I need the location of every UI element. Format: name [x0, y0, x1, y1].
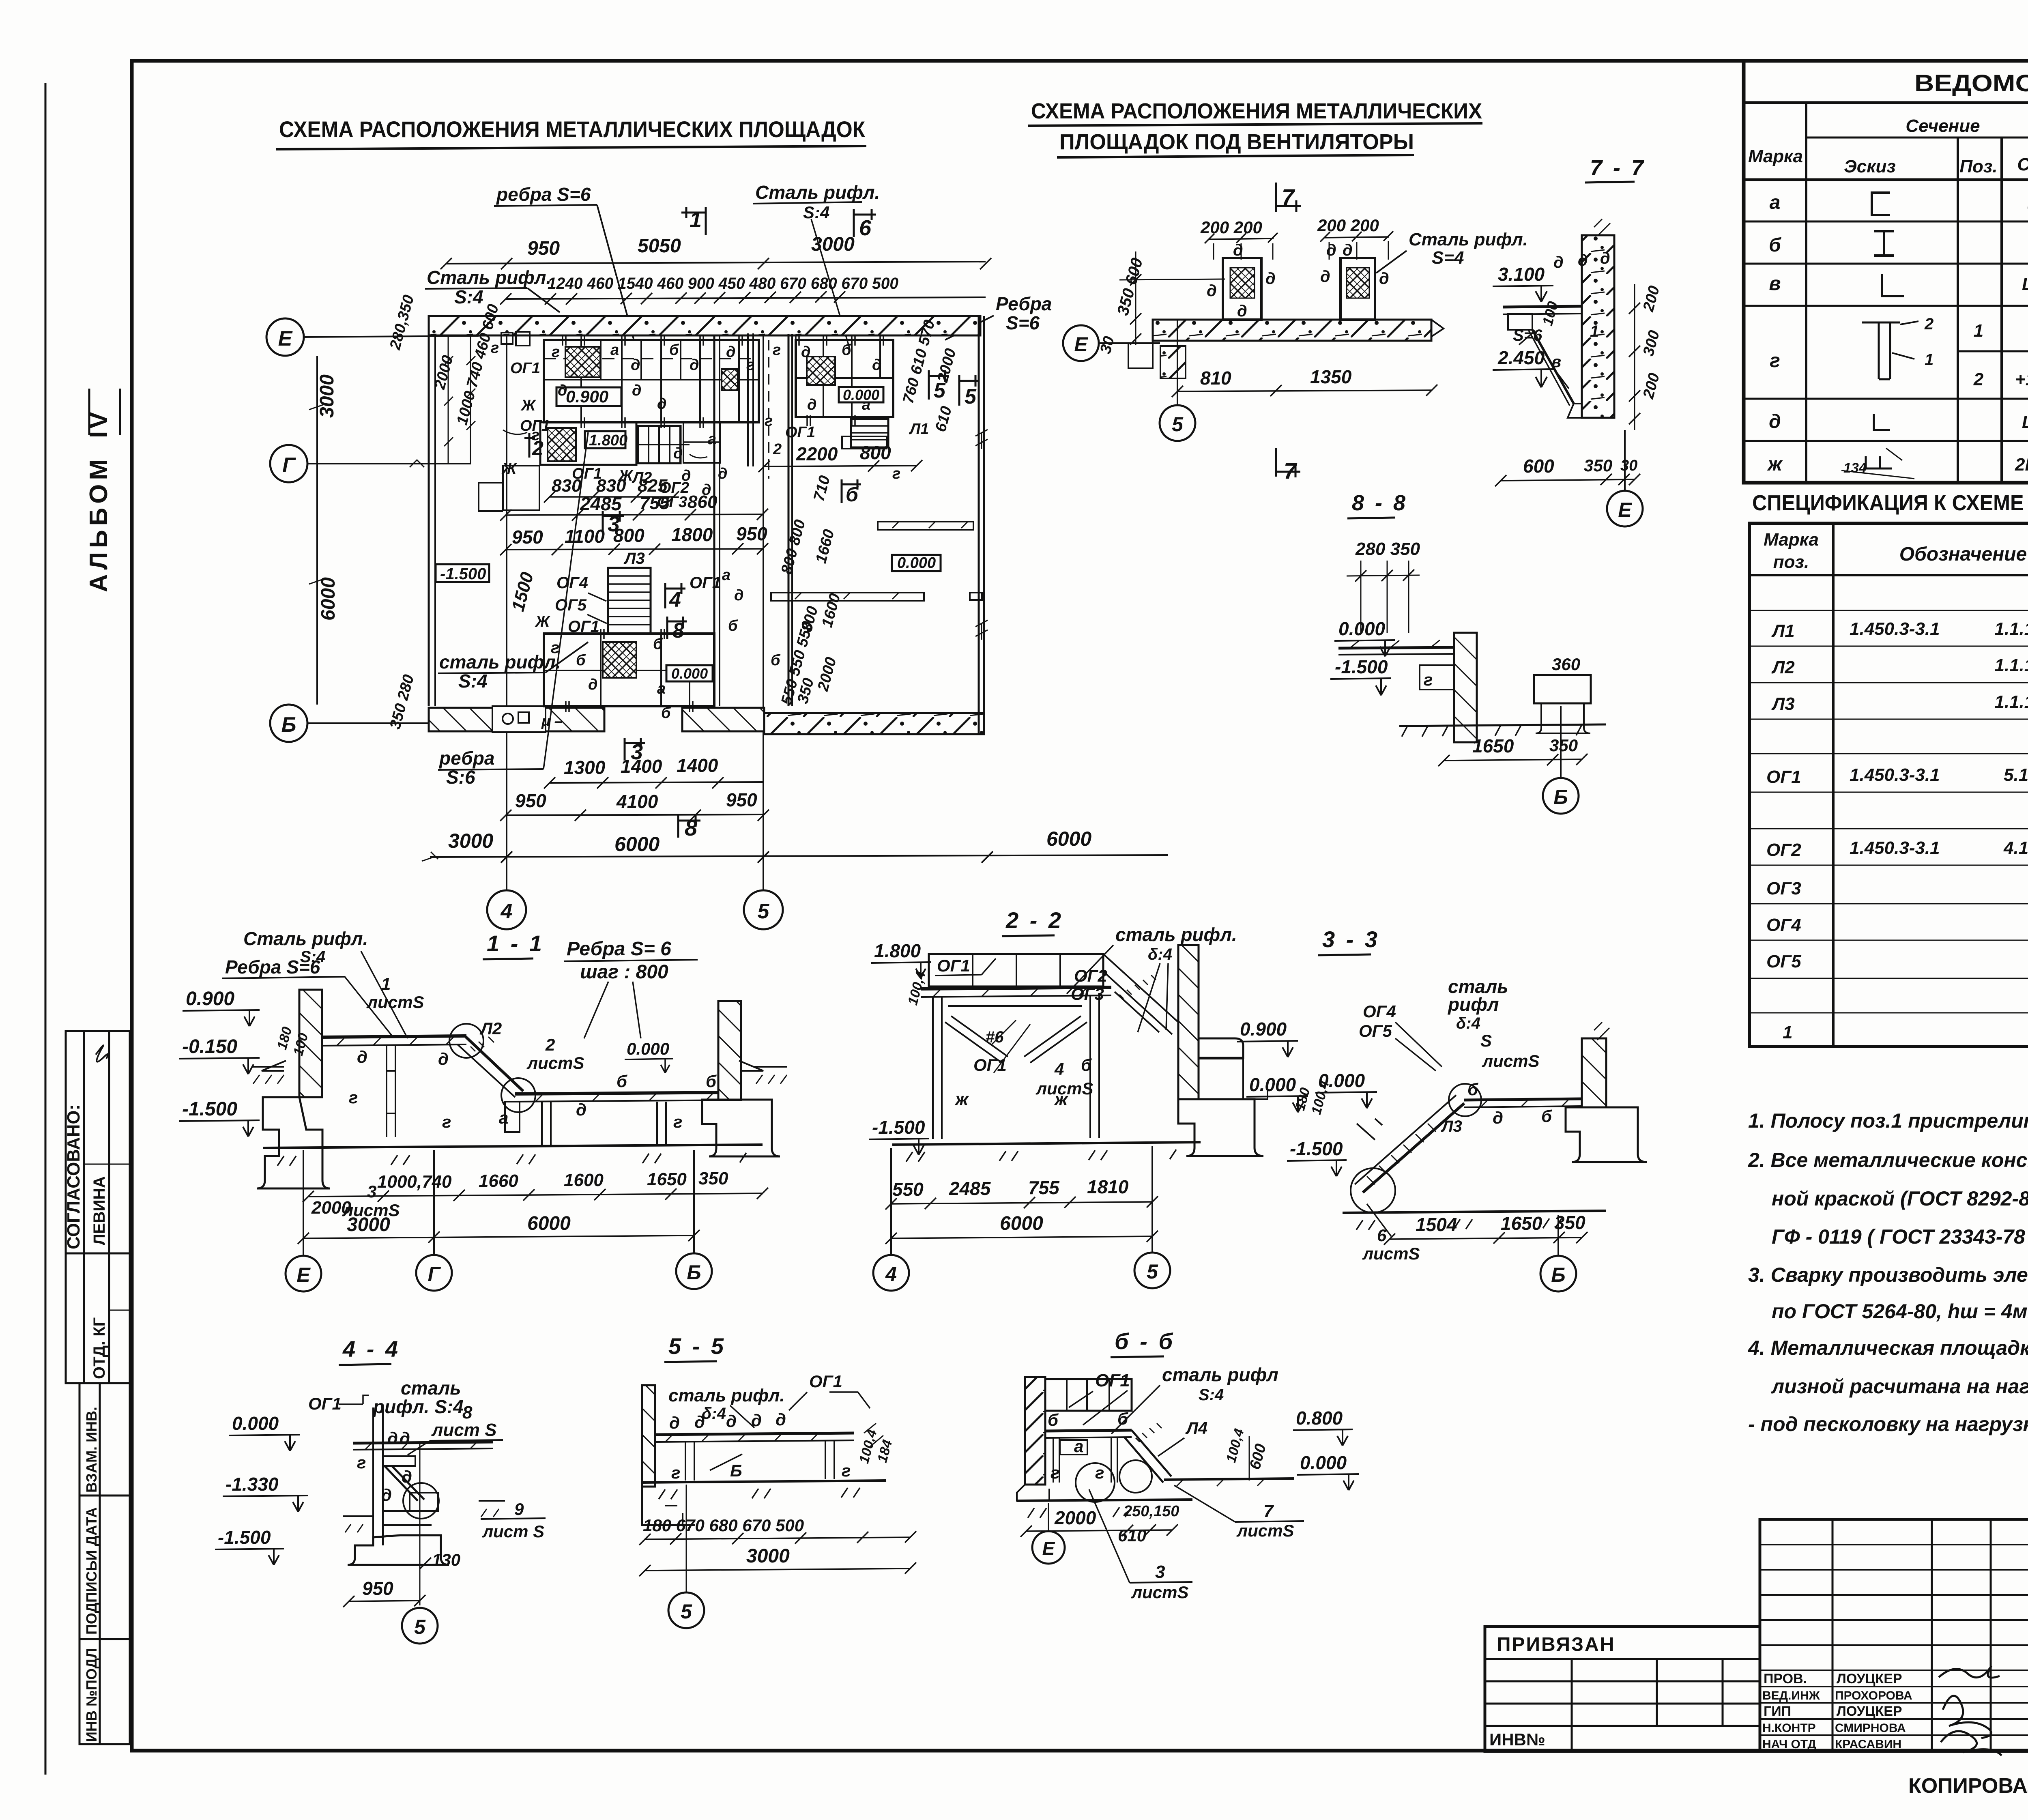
svg-text:ОГ5: ОГ5 [1359, 1021, 1392, 1040]
svg-text:ИНВ №ПОДЛ: ИНВ №ПОДЛ [83, 1648, 100, 1742]
top-left small blocks [501, 333, 513, 344]
svg-text:д: д [632, 382, 642, 399]
wall [1582, 235, 1614, 418]
rotated dims right of stair [778, 318, 959, 707]
svg-text:ГИП: ГИП [1764, 1704, 1791, 1719]
svg-text:0.000: 0.000 [1249, 1074, 1296, 1095]
svg-text:а: а [722, 567, 730, 584]
svg-text:СОГЛАСОВАНО:: СОГЛАСОВАНО: [64, 1104, 84, 1249]
svg-text:Л3: Л3 [1441, 1117, 1462, 1135]
svg-text:3000: 3000 [448, 829, 493, 852]
svg-text:950: 950 [362, 1578, 393, 1599]
svg-text:1660: 1660 [479, 1171, 518, 1191]
svg-text:7: 7 [1263, 1501, 1274, 1521]
svg-text:L63×5: L63×5 [2022, 412, 2028, 432]
signatures squiggles [1939, 1666, 2002, 1756]
svg-text:1: 1 [1974, 321, 1983, 341]
svg-text:2485: 2485 [580, 493, 622, 514]
svg-text:3.100: 3.100 [1498, 264, 1545, 285]
svg-text:ной краской (ГОСТ 8292-85) з: ной краской (ГОСТ 8292-85) за 2 раза по … [1772, 1187, 2028, 1210]
svg-text:Состав: Состав [2017, 155, 2028, 174]
svg-text:4: 4 [669, 588, 681, 612]
platform [655, 1433, 854, 1435]
svg-text:800: 800 [860, 442, 891, 463]
svg-text:КОПИРОВАЛ: Коршунова: КОПИРОВАЛ: Коршунова [1908, 1774, 2028, 1798]
svg-text:8 - 8: 8 - 8 [1352, 491, 1408, 515]
svg-text:0.000: 0.000 [1300, 1452, 1347, 1473]
svg-text:610: 610 [932, 404, 955, 434]
svg-text:а: а [610, 342, 619, 359]
svg-text:1300: 1300 [564, 757, 606, 778]
svg-text:ЛОУЦКЕР: ЛОУЦКЕР [1837, 1704, 1902, 1719]
svg-text:д: д [694, 1412, 705, 1431]
svg-text:1000,740: 1000,740 [377, 1172, 452, 1192]
svg-text:ПЛОЩАДОК ПОД ВЕНТИЛЯТОРЫ: ПЛОЩАДОК ПОД ВЕНТИЛЯТОРЫ [1059, 130, 1414, 154]
svg-text:АЛЬБОМ: АЛЬБОМ [85, 455, 113, 592]
top dim rows [446, 262, 986, 264]
svg-text:д: д [807, 396, 817, 413]
svg-text:д: д [718, 465, 728, 482]
wall column [1454, 633, 1477, 742]
svg-text:г: г [1770, 350, 1780, 372]
svg-text:810: 810 [1200, 367, 1231, 389]
svg-text:б: б [617, 1072, 627, 1091]
svg-text:860: 860 [687, 492, 718, 512]
svg-text:0.900: 0.900 [566, 387, 608, 406]
svg-text:сталь рифл.: сталь рифл. [1115, 924, 1237, 945]
right pedestal [1341, 258, 1375, 320]
svg-text:L 75×5: L 75×5 [2022, 274, 2028, 294]
svg-text:г: г [1424, 670, 1433, 689]
svg-text:Л3: Л3 [623, 550, 645, 567]
base + soil [892, 1142, 1201, 1145]
lower stamp boxes [79, 1383, 130, 1744]
svg-text:СМИРНОВА: СМИРНОВА [1835, 1721, 1906, 1735]
svg-text:0.800: 0.800 [1296, 1407, 1343, 1429]
svg-text:Сечение: Сечение [1906, 116, 1980, 136]
svg-text:а: а [708, 431, 716, 448]
svg-text:200 200: 200 200 [1317, 216, 1379, 235]
svg-text:Ребра: Ребра [996, 293, 1052, 314]
svg-text:д: д [681, 467, 691, 484]
svg-text:3000: 3000 [316, 374, 338, 418]
svg-text:ПОДПИСЬИ ДАТА: ПОДПИСЬИ ДАТА [83, 1507, 100, 1635]
svg-text:ИНВ№: ИНВ№ [1489, 1730, 1545, 1749]
svg-text:800 800: 800 800 [778, 518, 809, 576]
svg-text:S:4: S:4 [454, 286, 483, 307]
svg-text:ОГ2: ОГ2 [1766, 840, 1801, 860]
svg-text:830: 830 [596, 476, 626, 496]
svg-text:НАЧ ОТД: НАЧ ОТД [1762, 1738, 1816, 1751]
svg-text:4 - 4: 4 - 4 [342, 1336, 400, 1362]
svg-text:д: д [1237, 302, 1247, 320]
svg-text:Н.КОНТР: Н.КОНТР [1762, 1721, 1816, 1735]
svg-text:б: б [1117, 1409, 1128, 1428]
dashed inner borders [543, 340, 545, 422]
svg-text:г: г [673, 1112, 682, 1131]
svg-text:ОГ1: ОГ1 [937, 956, 970, 975]
svg-text:300: 300 [1640, 329, 1663, 358]
upper stair side rects [683, 422, 720, 463]
svg-text:130: 130 [432, 1550, 460, 1569]
svg-text:лист S: лист S [482, 1522, 544, 1541]
mid-left subplatform [540, 422, 636, 465]
cells [1766, 584, 2028, 1048]
svg-text:5050: 5050 [638, 235, 681, 257]
svg-text:950: 950 [512, 526, 543, 548]
svg-text:610: 610 [1118, 1526, 1146, 1545]
svg-text:ребра S=6: ребра S=6 [496, 184, 591, 205]
svg-text:2 - 2: 2 - 2 [1005, 907, 1063, 933]
right platform [1164, 1478, 1294, 1480]
svg-text:Ж: Ж [501, 460, 517, 477]
upper stair [638, 426, 681, 463]
svg-text:б: б [728, 617, 738, 634]
svg-text:5: 5 [414, 1616, 426, 1638]
svg-text:ОГ4: ОГ4 [1363, 1002, 1396, 1021]
platform [1338, 647, 1456, 648]
svg-text:+10×200: +10×200 [2015, 370, 2028, 389]
top concrete band [429, 316, 980, 335]
svg-text:-0.150: -0.150 [182, 1036, 237, 1057]
svg-text:в: в [1769, 273, 1781, 294]
svg-text:листS: листS [366, 993, 424, 1012]
svg-text:1400: 1400 [677, 755, 718, 776]
svg-text:Е: Е [296, 1263, 311, 1286]
svg-text:Л2: Л2 [1771, 658, 1795, 677]
corridor walls [713, 335, 715, 706]
small letters in cells [510, 342, 754, 444]
svg-text:ОГ1: ОГ1 [1766, 767, 1801, 787]
base + soil [1343, 1211, 1606, 1213]
svg-text:СХЕМА РАСПОЛОЖЕНИЯ МЕТАЛЛИЧЕСК: СХЕМА РАСПОЛОЖЕНИЯ МЕТАЛЛИЧЕСКИХ ПЛОЩАДО… [279, 116, 866, 142]
svg-text:д: д [357, 1047, 367, 1066]
svg-text:1240 460 1540 460 900 450 480: 1240 460 1540 460 900 450 480 670 680 67… [548, 275, 898, 292]
svg-text:δ:4: δ:4 [1148, 945, 1172, 963]
svg-text:б: б [706, 1072, 717, 1091]
svg-text:1.800: 1.800 [874, 940, 921, 961]
svg-text:ж: ж [1766, 453, 1783, 475]
row lines [1744, 221, 2028, 223]
svg-text:д: д [1326, 241, 1336, 259]
svg-text:0.000: 0.000 [1338, 618, 1386, 639]
central stair [608, 568, 651, 634]
svg-text:5: 5 [934, 379, 946, 402]
svg-text:1800: 1800 [671, 524, 713, 545]
svg-text:3. Сварку производить электр: 3. Сварку производить электродами типа Э… [1748, 1263, 2028, 1286]
svg-text:б: б [1048, 1410, 1059, 1429]
svg-text:в: в [1551, 353, 1561, 371]
svg-text:сталь: сталь [401, 1377, 461, 1399]
svg-text:б - б: б - б [1115, 1328, 1175, 1354]
labels below [572, 465, 711, 511]
svg-text:Поз.: Поз. [1959, 157, 1997, 176]
svg-text:0.000: 0.000 [627, 1039, 669, 1058]
svg-text:д: д [1320, 268, 1330, 286]
svg-text:ОГ1: ОГ1 [1095, 1371, 1130, 1390]
svg-text:ОГ1: ОГ1 [308, 1394, 342, 1413]
svg-text:2.450: 2.450 [1497, 347, 1545, 368]
svg-text:б: б [846, 483, 859, 506]
svg-text:а: а [1770, 192, 1781, 213]
svg-text:ОГ1: ОГ1 [690, 574, 721, 592]
platform beam [921, 987, 1111, 989]
svg-text:Г: Г [428, 1263, 441, 1285]
svg-text:д: д [872, 357, 882, 374]
svg-text:2: 2 [545, 1035, 555, 1054]
svg-text:5 - 5: 5 - 5 [668, 1333, 726, 1359]
svg-text:а: а [862, 396, 870, 413]
svg-text:д: д [801, 344, 811, 361]
svg-text:600: 600 [1246, 1442, 1270, 1471]
svg-text:сталь рифл.: сталь рифл. [668, 1386, 785, 1405]
svg-text:1: 1 [1925, 351, 1933, 369]
left wall [428, 316, 430, 706]
svg-text:5: 5 [1172, 413, 1184, 436]
svg-text:- под песколовку на нагруз: - под песколовку на нагрузку 150кн. [1748, 1413, 2028, 1435]
svg-text:0.900: 0.900 [186, 988, 234, 1010]
svg-text:ЛЕВИНА: ЛЕВИНА [90, 1176, 108, 1245]
svg-text:ж: ж [1054, 1089, 1069, 1109]
axis circles E G B [266, 318, 304, 356]
svg-text:ОГ1: ОГ1 [510, 360, 540, 377]
svg-text:350: 350 [698, 1169, 728, 1188]
svg-text:ВЗАМ. ИНВ.: ВЗАМ. ИНВ. [83, 1407, 100, 1493]
svg-text:1660: 1660 [812, 528, 838, 565]
svg-text:4. Металлическая площадка в: 4. Металлическая площадка в помещении эл… [1748, 1337, 2028, 1359]
svg-text:г: г [491, 340, 499, 357]
svg-text:350: 350 [1549, 736, 1578, 755]
svg-text:д: д [734, 587, 744, 604]
svg-text:6000: 6000 [318, 577, 339, 621]
dims [645, 1537, 911, 1539]
svg-text:2: 2 [532, 437, 544, 460]
svg-text:Марка: Марка [1764, 530, 1819, 550]
svg-text:S=6: S=6 [1006, 312, 1040, 333]
svg-text:д: д [1379, 270, 1389, 288]
svg-text:6000: 6000 [614, 833, 660, 855]
svg-text:-1.500: -1.500 [1335, 656, 1388, 677]
svg-text:по ГОСТ 5264-80, hш = 4мм: по ГОСТ 5264-80, hш = 4мм [1772, 1300, 2028, 1323]
svg-text:S=4: S=4 [1432, 248, 1464, 268]
svg-text:ОГ1: ОГ1 [973, 1055, 1007, 1074]
left wall + foundation [299, 990, 322, 1097]
svg-text:200 200: 200 200 [1200, 218, 1262, 237]
stair L4 [1124, 1430, 1171, 1483]
svg-text:б: б [669, 342, 679, 359]
svg-text:2L63×5: 2L63×5 [2015, 455, 2028, 475]
svg-text:250,150: 250,150 [1123, 1503, 1179, 1520]
svg-text:б: б [1769, 234, 1781, 256]
cut 7 bottom [1276, 448, 1300, 477]
svg-text:3 - 3: 3 - 3 [1322, 926, 1380, 952]
privyazan box [1485, 1627, 1760, 1751]
svg-text:лизной расчитана на нагрузк: лизной расчитана на нагрузку 32.0кн; [1771, 1375, 2028, 1398]
svg-text:д: д [1207, 282, 1217, 300]
svg-text:а: а [499, 1108, 508, 1127]
svg-text:д: д [673, 445, 683, 462]
svg-text:Л1: Л1 [909, 421, 929, 438]
svg-text:ОГ5: ОГ5 [555, 596, 587, 614]
right platform [1464, 1099, 1582, 1100]
svg-text:1.800: 1.800 [589, 432, 627, 449]
lower platform [544, 634, 714, 706]
svg-text:800: 800 [798, 604, 821, 634]
base line + soil [263, 1145, 763, 1148]
svg-text:д: д [726, 1412, 737, 1431]
svg-text:0.000: 0.000 [897, 554, 936, 572]
svg-text:360: 360 [1552, 655, 1580, 674]
svg-text:0.000: 0.000 [843, 387, 879, 403]
svg-text:Б: Б [730, 1461, 742, 1480]
svg-text:д: д [751, 1411, 762, 1430]
svg-text:S: S [1480, 1031, 1492, 1050]
bottom dims [1390, 1238, 1582, 1239]
svg-text:δ:4: δ:4 [702, 1405, 726, 1422]
svg-text:#6: #6 [986, 1028, 1004, 1046]
svg-text:-1.500: -1.500 [440, 565, 486, 583]
svg-text:д: д [690, 357, 699, 374]
svg-text:г: г [357, 1453, 366, 1472]
second bottom dim row 950 4100 950 [506, 814, 763, 815]
svg-text:6: 6 [859, 216, 872, 240]
svg-text:б: б [661, 705, 671, 722]
svg-text:1500: 1500 [508, 570, 537, 614]
svg-text:4100: 4100 [616, 791, 658, 812]
svg-text:1100: 1100 [565, 526, 605, 547]
beam [1045, 1430, 1132, 1431]
upper stamp boxes [66, 1031, 130, 1383]
svg-text:2485: 2485 [949, 1178, 991, 1199]
bottom dims [308, 1193, 763, 1197]
svg-text:рифл. S:4: рифл. S:4 [372, 1396, 464, 1417]
svg-text:950: 950 [515, 790, 546, 811]
svg-text:Б: Б [687, 1261, 701, 1284]
svg-text:6000: 6000 [527, 1213, 571, 1234]
dim rows mid [550, 496, 673, 498]
bottom dims [891, 1202, 1152, 1204]
svg-text:3: 3 [1155, 1562, 1165, 1582]
sostav [1973, 189, 2028, 475]
svg-text:д: д [669, 1413, 680, 1432]
svg-text:2000: 2000 [311, 1198, 351, 1218]
svg-text:8: 8 [462, 1403, 473, 1422]
svg-text:-1.500: -1.500 [872, 1117, 925, 1138]
structure [373, 1407, 383, 1545]
stair L1 [851, 419, 888, 447]
svg-text:800: 800 [613, 525, 644, 546]
E circle + axis [1063, 325, 1099, 361]
svg-text:2: 2 [1973, 370, 1984, 389]
dims 1650 350 [1444, 759, 1582, 761]
svg-text:д: д [1553, 254, 1564, 271]
svg-text:листS: листS [1482, 1051, 1540, 1070]
svg-text:д: д [588, 676, 598, 693]
svg-text:Б: Б [1551, 1263, 1565, 1286]
svg-text:г: г [671, 1463, 680, 1482]
svg-text:0.000: 0.000 [671, 665, 708, 682]
svg-text:184: 184 [874, 1438, 895, 1464]
svg-text:2: 2 [773, 441, 782, 458]
svg-text:б: б [771, 652, 781, 669]
upper-right platform grid [796, 340, 893, 417]
marks [1766, 192, 1783, 475]
dims [1026, 1530, 1172, 1531]
svg-text:280,350: 280,350 [387, 293, 417, 352]
svg-text:г: г [1051, 1463, 1059, 1482]
svg-text:4: 4 [1054, 1059, 1064, 1079]
svg-text:1.450.3-3.1: 1.450.3-3.1 [1850, 838, 1940, 858]
svg-text:8: 8 [672, 619, 684, 642]
svg-text:2000: 2000 [1054, 1507, 1096, 1528]
svg-text:9: 9 [514, 1500, 524, 1519]
svg-text:Сталь рифл.: Сталь рифл. [1409, 230, 1528, 249]
bottom-left band [429, 708, 604, 731]
svg-text:950: 950 [527, 238, 560, 259]
svg-text:СХЕМА РАСПОЛОЖЕНИЯ МЕТАЛЛИЧЕСК: СХЕМА РАСПОЛОЖЕНИЯ МЕТАЛЛИЧЕСКИХ [1031, 99, 1482, 123]
svg-text:1650: 1650 [1501, 1213, 1542, 1234]
left pilaster rects [503, 466, 539, 510]
svg-text:Сталь рифл.: Сталь рифл. [755, 182, 880, 203]
svg-text:3000: 3000 [347, 1214, 390, 1236]
svg-text:Е: Е [278, 327, 293, 350]
svg-text:S=6: S=6 [1513, 327, 1542, 344]
cut 7 top [1276, 183, 1301, 212]
svg-text:1650: 1650 [1472, 735, 1514, 756]
svg-text:ж: ж [954, 1089, 969, 1109]
svg-text:200: 200 [1640, 284, 1663, 314]
svg-text:листS: листS [1236, 1521, 1294, 1540]
svg-text:листS: листS [1362, 1244, 1420, 1263]
svg-text:д: д [1493, 1108, 1503, 1127]
svg-text:4.1.1.1.0-: 4.1.1.1.0- [2003, 838, 2028, 858]
svg-text:д: д [387, 1429, 398, 1448]
beam end ticks on grids [563, 335, 883, 712]
svg-text:1350: 1350 [1310, 366, 1352, 387]
svg-text:Марка: Марка [1748, 146, 1803, 166]
svg-text:-1.500: -1.500 [218, 1527, 271, 1548]
svg-text:б: б [842, 342, 852, 359]
svg-text:550: 550 [892, 1179, 924, 1200]
svg-text:950: 950 [726, 789, 757, 810]
svg-text:Б: Б [1553, 786, 1568, 808]
central signature grid [1760, 1519, 2028, 1751]
svg-text:ЛОУЦКЕР: ЛОУЦКЕР [1837, 1671, 1902, 1687]
svg-text:3: 3 [367, 1182, 376, 1201]
left wall [1025, 1377, 1045, 1485]
eskiz sketches [1841, 193, 1933, 479]
svg-text:б: б [1541, 1107, 1552, 1126]
svg-text:5: 5 [965, 385, 977, 408]
base [1017, 1500, 1192, 1501]
svg-text:Сталь рифл.: Сталь рифл. [427, 267, 551, 288]
svg-text:3000: 3000 [811, 234, 855, 255]
svg-text:830: 830 [552, 476, 582, 496]
svg-text:5.1.0.1.0°: 5.1.0.1.0° [2004, 765, 2028, 785]
svg-text:ОГ4: ОГ4 [556, 574, 588, 592]
svg-text:950: 950 [736, 523, 767, 544]
svg-text:1: 1 [381, 974, 391, 993]
rotated dims left column [387, 293, 502, 731]
svg-text:6000: 6000 [1046, 827, 1091, 850]
axis 4,5 circles bottom [487, 890, 526, 929]
svg-text:рифл: рифл [1447, 994, 1499, 1015]
bottom dims [1501, 479, 1635, 481]
stair [1363, 1103, 1464, 1193]
svg-text:100,4: 100,4 [1223, 1427, 1247, 1464]
svg-text:1.450.3-3.1: 1.450.3-3.1 [1850, 619, 1940, 639]
svg-text:100,4: 100,4 [1308, 1079, 1332, 1116]
